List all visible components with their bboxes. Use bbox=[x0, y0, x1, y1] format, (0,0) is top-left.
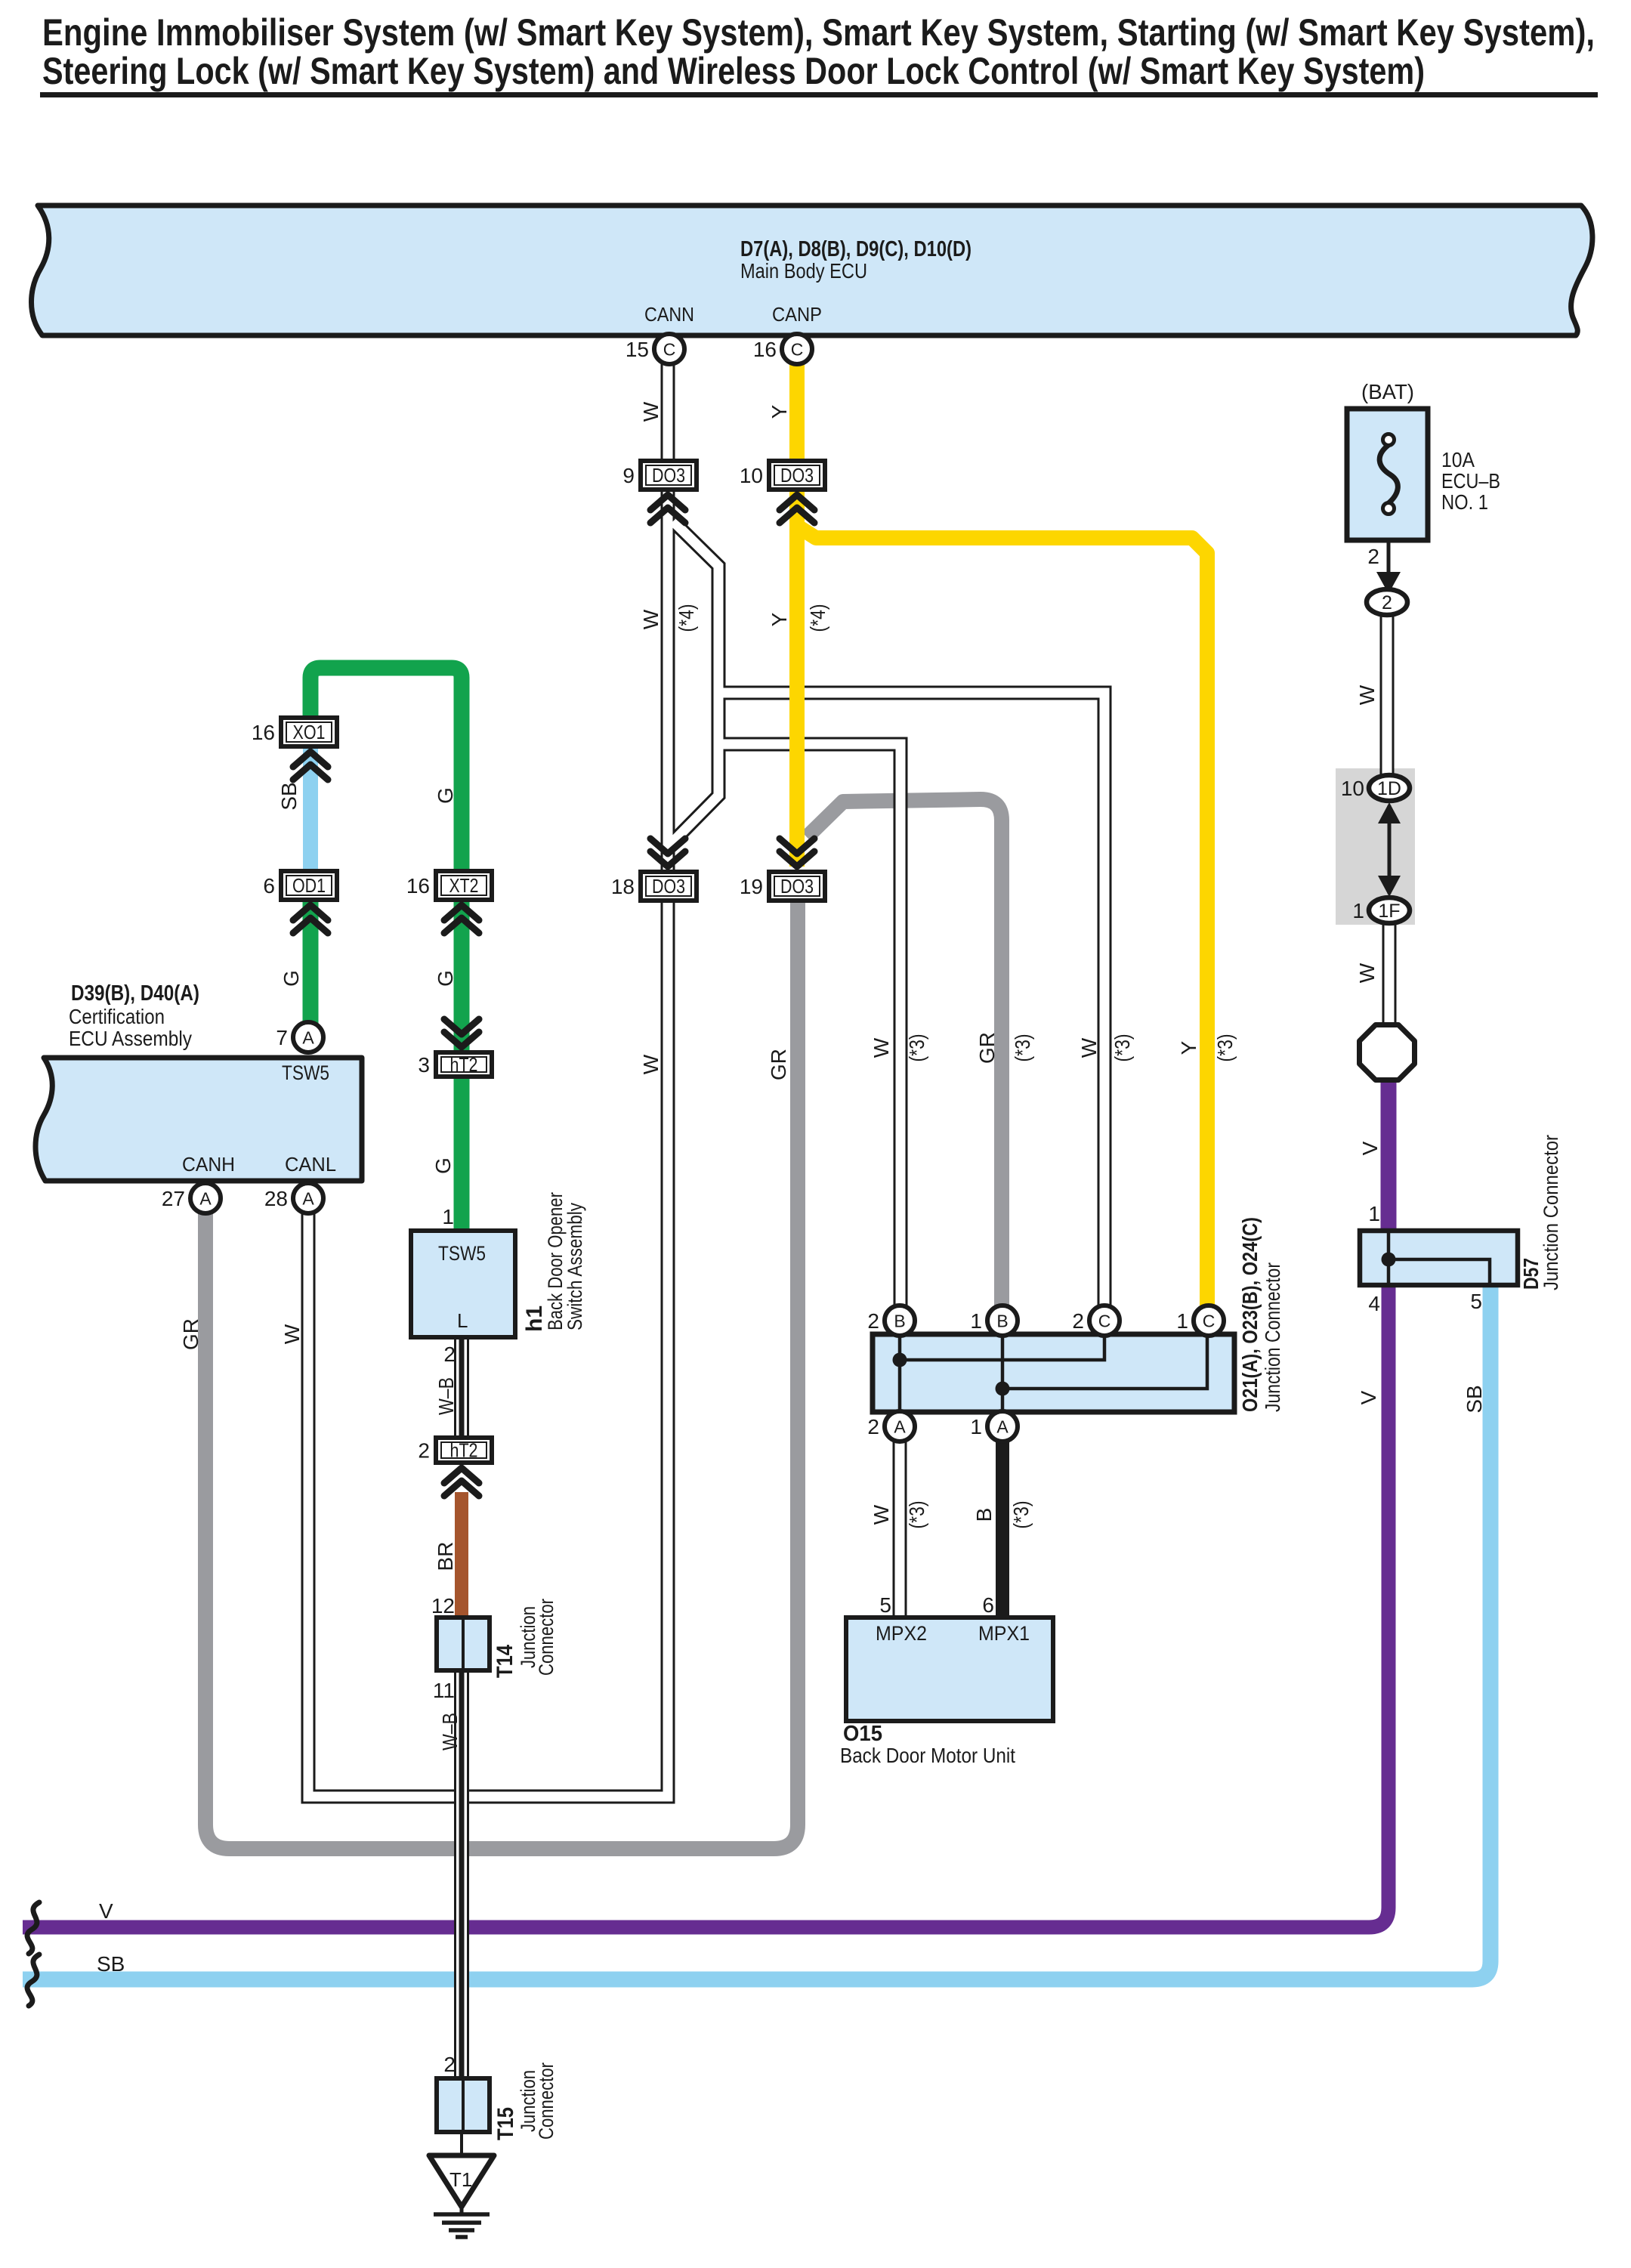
svg-text:hT2: hT2 bbox=[450, 1053, 478, 1076]
svg-text:16: 16 bbox=[406, 874, 430, 898]
svg-text:hT2: hT2 bbox=[450, 1439, 478, 1462]
svg-text:SB: SB bbox=[1463, 1385, 1486, 1413]
svg-text:(*4): (*4) bbox=[675, 604, 698, 632]
svg-text:Switch Assembly: Switch Assembly bbox=[564, 1203, 586, 1330]
svg-text:6: 6 bbox=[982, 1593, 994, 1617]
wire Y branch from 10 DO3 to O21 pin 1C bbox=[799, 527, 1207, 1311]
svg-text:SB: SB bbox=[277, 782, 301, 810]
wire Y below 10 DO3 down to 19 DO3 bbox=[789, 488, 805, 867]
svg-text:A: A bbox=[996, 1417, 1009, 1437]
O21 pin 2 C bbox=[1089, 1305, 1120, 1336]
wire GR from CANH pin 27 to 19 DO3 (long U path) bbox=[205, 901, 798, 1849]
svg-text:CANN: CANN bbox=[644, 303, 694, 326]
connector oval 1D pin 10 bbox=[1369, 775, 1410, 801]
Back Door Opener Switch Assembly box h1 bbox=[411, 1231, 515, 1337]
wire B from O21 pin 1A to MPX1 pin 6 bbox=[996, 1439, 1009, 1620]
junction connector O21/O23/O24 box bbox=[873, 1334, 1234, 1412]
svg-text:Junction Connector: Junction Connector bbox=[1540, 1135, 1562, 1290]
svg-text:TSW5: TSW5 bbox=[282, 1061, 329, 1084]
svg-text:18: 18 bbox=[611, 875, 635, 898]
chevron below 10 DO3 bbox=[780, 495, 814, 510]
connector 3 hT2 bbox=[436, 1052, 492, 1077]
svg-text:OD1: OD1 bbox=[292, 874, 326, 897]
svg-text:2: 2 bbox=[443, 2053, 456, 2076]
ground hatch bbox=[434, 2212, 490, 2217]
page break squiggle on SB wire bbox=[27, 1954, 39, 2006]
svg-text:1: 1 bbox=[1352, 899, 1364, 922]
wire G XO1 up over to XT2 bbox=[310, 668, 462, 873]
svg-text:10: 10 bbox=[740, 464, 763, 487]
svg-text:G: G bbox=[431, 1157, 455, 1174]
svg-text:A: A bbox=[199, 1189, 212, 1209]
O21 pin 1 A bbox=[987, 1411, 1018, 1441]
svg-text:CANP: CANP bbox=[772, 303, 822, 326]
ground stem bbox=[460, 2207, 464, 2214]
svg-text:C: C bbox=[1203, 1312, 1216, 1331]
wire W-B from TSW5 switch to hT2 bbox=[454, 1336, 469, 1439]
svg-text:4: 4 bbox=[1368, 1292, 1380, 1315]
svg-text:(*3): (*3) bbox=[1011, 1034, 1034, 1062]
svg-text:B: B bbox=[894, 1312, 905, 1331]
wire SB from D57 pin 5 down and left to page break bbox=[23, 1283, 1490, 1979]
certification pin 28 A bbox=[293, 1183, 323, 1213]
svg-text:GR: GR bbox=[179, 1318, 202, 1350]
chevron above hT2 upper bbox=[444, 1032, 479, 1047]
ECU pin 15 C bbox=[654, 334, 684, 364]
chevron below OD1 bbox=[293, 905, 328, 920]
svg-text:11: 11 bbox=[433, 1679, 455, 1702]
svg-text:L: L bbox=[457, 1309, 468, 1332]
svg-text:2: 2 bbox=[418, 1439, 430, 1463]
svg-text:7: 7 bbox=[276, 1026, 288, 1049]
svg-text:1: 1 bbox=[1368, 1202, 1380, 1225]
D57 internal wire and junction dot bbox=[1389, 1231, 1490, 1285]
svg-text:G: G bbox=[280, 970, 303, 987]
svg-text:B: B bbox=[972, 1508, 996, 1522]
O21 pin 2 A bbox=[885, 1411, 915, 1441]
svg-text:XO1: XO1 bbox=[293, 721, 326, 743]
certification pin 27 A bbox=[190, 1183, 221, 1213]
fuse 10A ECU-B NO.1 box bbox=[1347, 409, 1428, 540]
O21 pin 2 B bbox=[885, 1305, 915, 1336]
fuse element symbol bbox=[1379, 445, 1398, 503]
svg-text:10: 10 bbox=[1341, 777, 1364, 800]
svg-text:DO3: DO3 bbox=[780, 464, 814, 487]
svg-text:MPX2: MPX2 bbox=[876, 1622, 927, 1645]
svg-text:CANH: CANH bbox=[182, 1153, 235, 1176]
octagon splice symbol bbox=[1360, 1025, 1415, 1080]
connector 6 OD1 bbox=[281, 871, 337, 900]
wire G below hT2 to TSW5 switch bbox=[454, 1075, 470, 1233]
wire W branch to O21 pin 2C (outline) bbox=[718, 693, 1104, 1311]
svg-text:GR: GR bbox=[975, 1032, 999, 1064]
svg-text:28: 28 bbox=[264, 1187, 288, 1210]
connector oval 2 bbox=[1367, 589, 1407, 615]
wire V octagon to D57 pin 1 bbox=[1381, 1080, 1397, 1233]
double arrow between 1D and 1F bbox=[1388, 805, 1392, 894]
wire W branch to O21 pin 2B (core) bbox=[718, 744, 900, 1311]
svg-text:D39(B), D40(A): D39(B), D40(A) bbox=[71, 981, 199, 1006]
svg-text:Certification: Certification bbox=[69, 1005, 165, 1028]
svg-text:A: A bbox=[894, 1417, 906, 1437]
svg-text:(*3): (*3) bbox=[1111, 1034, 1134, 1062]
svg-text:Y: Y bbox=[1177, 1040, 1200, 1055]
svg-text:(*3): (*3) bbox=[1213, 1034, 1237, 1062]
O21 pin 1 B bbox=[987, 1305, 1018, 1336]
junction connector T14 box bbox=[437, 1618, 490, 1670]
O21 internal bus 2B-2C-2A bbox=[900, 1334, 1104, 1412]
svg-text:(*3): (*3) bbox=[1009, 1501, 1033, 1529]
chevron below XO1 bbox=[293, 752, 328, 767]
wire W connector 1F to octagon (outline) bbox=[1382, 922, 1397, 1026]
chevron above 19 DO3 bbox=[780, 851, 814, 867]
wire W connector 1F to octagon (core) bbox=[1385, 922, 1395, 1026]
chevron below XT2 bbox=[444, 905, 479, 920]
chevron below 9 DO3 bbox=[650, 495, 685, 510]
svg-text:G: G bbox=[434, 787, 457, 804]
svg-text:2: 2 bbox=[867, 1415, 879, 1438]
connector 2 hT2 bbox=[436, 1438, 492, 1463]
svg-text:1: 1 bbox=[970, 1415, 982, 1438]
svg-text:ECU–B: ECU–B bbox=[1441, 469, 1500, 493]
svg-text:(BAT): (BAT) bbox=[1361, 380, 1414, 403]
svg-text:W–B: W–B bbox=[438, 1713, 462, 1750]
O21 internal bus 1B-1C-1A bbox=[1002, 1334, 1207, 1412]
svg-text:V: V bbox=[1358, 1141, 1382, 1155]
connector 10 DO3 bbox=[769, 461, 825, 490]
svg-text:16: 16 bbox=[753, 338, 777, 361]
svg-text:6: 6 bbox=[263, 874, 275, 898]
svg-text:5: 5 bbox=[879, 1593, 891, 1617]
O21 pin 1 C bbox=[1194, 1305, 1224, 1336]
ground triangle T1 bbox=[429, 2155, 494, 2207]
chevron below hT2 lower bbox=[444, 1468, 479, 1483]
svg-text:ECU Assembly: ECU Assembly bbox=[69, 1027, 192, 1050]
svg-text:C: C bbox=[663, 340, 676, 360]
svg-text:D7(A), D8(B), D9(C), D10(D): D7(A), D8(B), D9(C), D10(D) bbox=[740, 237, 971, 261]
wire GR from 19 DO3 splice to O21 pin 1B bbox=[807, 799, 1002, 1311]
title underline bbox=[40, 92, 1598, 97]
page break squiggle on V wire bbox=[27, 1902, 39, 1954]
wire W from O21 pin 2A to MPX2 pin 5 (core) bbox=[895, 1439, 905, 1620]
svg-text:1D: 1D bbox=[1377, 778, 1401, 799]
svg-text:27: 27 bbox=[162, 1187, 185, 1210]
Certification ECU Assembly box D39-D40 bbox=[36, 1058, 362, 1181]
chevron above 18 DO3 bbox=[650, 851, 685, 867]
junction connector T15 box bbox=[437, 2078, 490, 2132]
svg-text:19: 19 bbox=[740, 875, 763, 898]
svg-text:(*4): (*4) bbox=[806, 604, 829, 632]
svg-text:12: 12 bbox=[431, 1594, 455, 1618]
svg-text:V: V bbox=[99, 1899, 113, 1923]
svg-text:W: W bbox=[280, 1324, 304, 1344]
svg-text:Y: Y bbox=[768, 404, 791, 419]
wire W branch to O21 pin 2C (core) bbox=[718, 693, 1104, 1311]
svg-text:A: A bbox=[302, 1189, 314, 1209]
certification pin 7 A bbox=[293, 1022, 323, 1052]
connector oval 1F pin 1 bbox=[1369, 898, 1410, 923]
svg-text:W: W bbox=[1355, 963, 1379, 983]
svg-text:C: C bbox=[1098, 1312, 1111, 1331]
connector 16 XT2 bbox=[436, 871, 492, 900]
svg-text:W: W bbox=[639, 401, 663, 422]
svg-text:1F: 1F bbox=[1378, 901, 1400, 922]
wire G below XT2 to hT2 bbox=[454, 898, 470, 1054]
wire Y CANP pin16 to 10 DO3 bbox=[789, 361, 805, 462]
Back Door Motor Unit box O15 bbox=[846, 1618, 1053, 1721]
svg-text:5: 5 bbox=[1470, 1290, 1482, 1313]
svg-text:B: B bbox=[996, 1312, 1008, 1331]
wire SB between XO1 and OD1 bbox=[303, 745, 318, 873]
svg-text:O15: O15 bbox=[843, 1722, 882, 1746]
svg-text:Y: Y bbox=[768, 612, 791, 626]
svg-text:T15: T15 bbox=[493, 2107, 518, 2140]
svg-text:DO3: DO3 bbox=[652, 464, 685, 487]
svg-text:XT2: XT2 bbox=[449, 874, 479, 897]
connector 19 DO3 bbox=[769, 872, 825, 901]
svg-text:16: 16 bbox=[252, 721, 275, 744]
svg-text:SB: SB bbox=[97, 1952, 125, 1976]
svg-text:(*3): (*3) bbox=[905, 1034, 928, 1062]
svg-text:CANL: CANL bbox=[285, 1153, 336, 1176]
wire V from D57 pin 4 down and left to page break bbox=[23, 1283, 1389, 1927]
svg-text:BR: BR bbox=[434, 1542, 457, 1571]
svg-text:1: 1 bbox=[442, 1205, 454, 1228]
svg-text:2: 2 bbox=[867, 1309, 879, 1333]
svg-text:Main Body ECU: Main Body ECU bbox=[740, 259, 867, 283]
svg-text:Connector: Connector bbox=[535, 1599, 558, 1676]
wire W branch channel from 9 DO3 splice down to 18 DO3 splice (core) bbox=[671, 521, 718, 844]
junction connector D57 box bbox=[1360, 1231, 1518, 1285]
svg-text:T14: T14 bbox=[493, 1645, 517, 1678]
svg-text:2: 2 bbox=[1382, 592, 1392, 613]
svg-text:W: W bbox=[1355, 684, 1379, 705]
svg-text:W: W bbox=[870, 1504, 893, 1525]
svg-text:W–B: W–B bbox=[434, 1377, 458, 1415]
wire W-B from T14 pin 11 to T15 pin 2 bbox=[454, 1669, 469, 2080]
wire W branch to O21 pin 2B (outline) bbox=[718, 744, 900, 1311]
ECU pin 16 C bbox=[782, 334, 812, 364]
svg-text:9: 9 bbox=[622, 464, 635, 487]
wire BR below hT2 to T14 bbox=[455, 1492, 468, 1620]
svg-text:3: 3 bbox=[418, 1053, 430, 1077]
svg-text:W: W bbox=[639, 1054, 663, 1074]
wire W from O21 pin 2A to MPX2 pin 5 (outline) bbox=[893, 1439, 907, 1620]
connector 9 DO3 bbox=[641, 461, 697, 490]
svg-text:2: 2 bbox=[1367, 545, 1379, 568]
svg-text:NO. 1: NO. 1 bbox=[1441, 490, 1488, 514]
wire W CANN pin15 down through 9 DO3 and 18 DO3 then left and up to CANL pin28 (core) bbox=[308, 361, 668, 1797]
svg-text:Back Door Motor Unit: Back Door Motor Unit bbox=[840, 1744, 1015, 1767]
svg-text:1: 1 bbox=[1176, 1309, 1188, 1333]
svg-text:Connector: Connector bbox=[535, 2063, 558, 2140]
svg-text:1: 1 bbox=[970, 1309, 982, 1333]
svg-text:C: C bbox=[791, 340, 804, 360]
connector 18 DO3 bbox=[641, 872, 697, 901]
svg-text:DO3: DO3 bbox=[652, 875, 685, 898]
svg-text:Junction Connector: Junction Connector bbox=[1261, 1262, 1284, 1412]
svg-text:(*3): (*3) bbox=[905, 1501, 928, 1529]
wire from T15 to ground T1 bbox=[460, 2132, 463, 2158]
svg-text:T1: T1 bbox=[449, 2168, 472, 2191]
svg-text:W: W bbox=[639, 609, 663, 629]
svg-text:GR: GR bbox=[767, 1049, 790, 1080]
wire W branch channel from 9 DO3 splice down to 18 DO3 splice (outline) bbox=[671, 521, 718, 844]
connector 16 XO1 bbox=[281, 718, 337, 746]
wire W fuse oval 2 to connector 1D (core) bbox=[1382, 612, 1392, 775]
svg-text:O21(A), O23(B), O24(C): O21(A), O23(B), O24(C) bbox=[1238, 1217, 1262, 1412]
svg-text:Engine Immobiliser System (w/: Engine Immobiliser System (w/ Smart Key … bbox=[42, 11, 1595, 54]
svg-text:W: W bbox=[1077, 1037, 1101, 1058]
shaded connector block 1D-1F bbox=[1336, 768, 1415, 925]
wire W fuse oval 2 to connector 1D (outline) bbox=[1380, 612, 1395, 775]
svg-text:TSW5: TSW5 bbox=[438, 1242, 486, 1265]
svg-text:10A: 10A bbox=[1441, 448, 1475, 471]
svg-text:2: 2 bbox=[443, 1343, 456, 1366]
svg-text:A: A bbox=[302, 1028, 314, 1048]
svg-text:MPX1: MPX1 bbox=[978, 1622, 1030, 1645]
arrow from fuse to oval 2 bbox=[1387, 540, 1391, 578]
svg-text:V: V bbox=[1357, 1390, 1380, 1404]
svg-text:G: G bbox=[434, 970, 457, 987]
svg-text:2: 2 bbox=[1072, 1309, 1084, 1333]
wire G certification pin 7 up to OD1 bbox=[303, 898, 319, 1024]
wire W CANN pin15 down through 9 DO3 and 18 DO3 then left and up to CANL pin28 (outline) bbox=[308, 361, 668, 1797]
svg-text:DO3: DO3 bbox=[780, 875, 814, 898]
svg-text:Steering Lock (w/ Smart Key Sy: Steering Lock (w/ Smart Key System) and … bbox=[42, 50, 1425, 92]
svg-text:15: 15 bbox=[626, 338, 649, 361]
Main Body ECU box D7-D10 bbox=[32, 205, 1592, 335]
svg-text:W: W bbox=[870, 1037, 893, 1058]
